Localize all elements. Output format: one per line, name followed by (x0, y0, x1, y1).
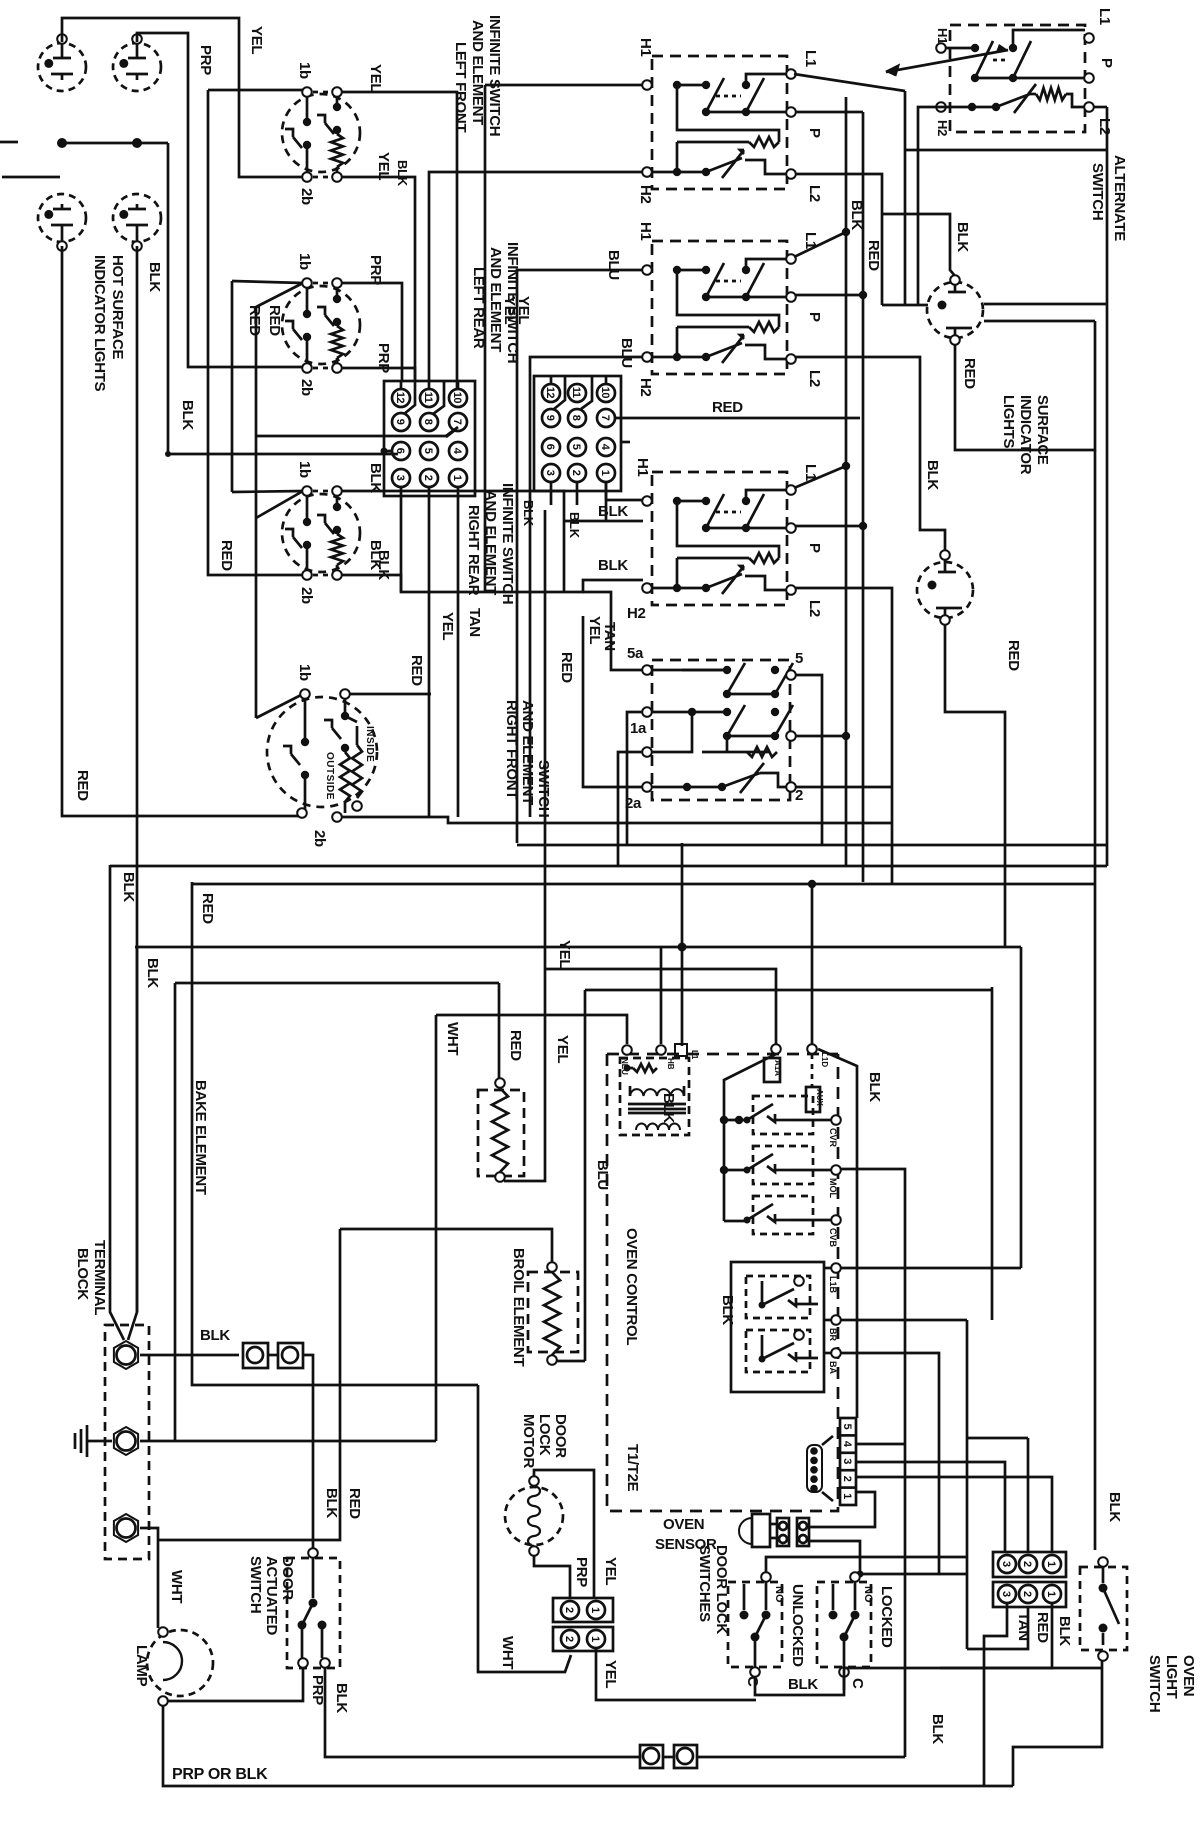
wire PRP from light2 to LR switch 2b (137, 33, 303, 367)
svg-text:BLK: BLK (367, 540, 384, 570)
svg-text:AND ELEMENT: AND ELEMENT (469, 20, 486, 125)
svg-text:BLK: BLK (1106, 1492, 1123, 1522)
wire PRP LR bottom into block (341, 368, 415, 381)
svg-text:1: 1 (451, 475, 463, 481)
svg-text:WHT: WHT (168, 1570, 185, 1603)
svg-text:WHT: WHT (499, 1636, 516, 1669)
svg-text:5: 5 (795, 650, 803, 667)
wire from left edge to LF 2b (2, 176, 60, 179)
wire left edge down x110 (110, 865, 124, 1340)
svg-text:C: C (849, 1678, 866, 1689)
svg-text:INFINITE SWITCH: INFINITE SWITCH (499, 483, 516, 604)
svg-text:RED: RED (712, 399, 743, 416)
wire bus y845 (517, 844, 1107, 847)
svg-text:YEL: YEL (586, 616, 603, 644)
svg-text:WHT: WHT (444, 1022, 461, 1055)
svg-text:BLK: BLK (866, 1072, 883, 1102)
alternate switch box (936, 25, 1094, 132)
svg-text:L2: L2 (806, 600, 823, 617)
wire L1 box3 diagonal (794, 462, 850, 488)
svg-text:1: 1 (1045, 1591, 1057, 1597)
wire H1 feed box1 (485, 85, 643, 592)
svg-text:RED: RED (1034, 1612, 1051, 1643)
svg-text:5: 5 (841, 1424, 853, 1430)
wire hex3 to lamp and right (140, 1528, 158, 1628)
svg-text:BLK: BLK (788, 1676, 818, 1693)
hot surface indicator light 2 (113, 34, 161, 91)
surface unit switch box 3 (642, 472, 796, 605)
label HOT SURFACE INDICATOR LIGHTS (91, 255, 126, 392)
svg-text:YEL: YEL (439, 612, 456, 640)
svg-text:TERMINAL: TERMINAL (91, 1240, 108, 1315)
wire squares to door actuated switch (268, 1355, 313, 1549)
svg-text:BLK: BLK (323, 1488, 340, 1518)
svg-text:RED: RED (865, 240, 882, 271)
svg-text:INDICATOR LIGHTS: INDICATOR LIGHTS (91, 255, 108, 392)
svg-text:BLK: BLK (146, 262, 163, 292)
infinite switch left rear (282, 278, 360, 373)
label L1 P L2 col2 (802, 232, 823, 387)
wire x137 to terminal block (128, 947, 137, 1340)
svg-text:H2: H2 (627, 605, 646, 622)
wire box3 H1 stub (605, 499, 647, 502)
relay 3 CVB (744, 1196, 841, 1234)
svg-text:HOT SURFACE: HOT SURFACE (109, 255, 126, 360)
wire TAN block2 pin3 (984, 1603, 1007, 1786)
wire PRP LR top to pin12 (341, 283, 402, 381)
wire door block pin2 feed (1027, 1438, 1030, 1552)
svg-text:BLK: BLK (598, 503, 628, 520)
surface indicator light A (927, 275, 983, 345)
svg-text:ACTUATED: ACTUATED (263, 1556, 280, 1635)
wire unlocked NO feed (766, 1557, 967, 1573)
svg-text:9: 9 (544, 415, 556, 421)
svg-text:1: 1 (589, 1607, 601, 1613)
wire bus to alt L2 right edge (905, 107, 1107, 866)
wire T1 from L1D area to 5-pin connector (818, 1049, 857, 1418)
svg-text:BLK: BLK (954, 222, 971, 252)
label DOOR LOCK SWITCHES (696, 1545, 730, 1634)
connector block left (pins 12-1) (381, 381, 476, 496)
svg-text:DOOR: DOOR (279, 1556, 296, 1600)
wire YEL block2 pin1 to lock switches (596, 1648, 756, 1700)
locked switch (817, 1572, 871, 1677)
wire L2 box3 to bus x892 (796, 588, 892, 884)
wire hex1 BLK to squares (140, 1354, 239, 1357)
wire YEL from light1 to LF switch 2b (62, 18, 303, 177)
svg-text:YEL: YEL (556, 940, 573, 968)
svg-text:OVEN: OVEN (663, 1516, 704, 1533)
svg-text:6: 6 (394, 448, 406, 454)
wire TAN to box4 5a (583, 592, 643, 670)
switch and element right front (double) (267, 689, 377, 822)
svg-text:YEL: YEL (367, 64, 384, 92)
svg-text:5a: 5a (627, 645, 644, 662)
svg-text:BLK: BLK (200, 1327, 230, 1344)
wire L1B to BLK bus (841, 947, 1021, 1268)
svg-text:BLK: BLK (395, 160, 410, 187)
wire YEL motor top to block1 pin1 (534, 1470, 594, 1597)
terminal L1D (807, 1044, 817, 1054)
svg-text:BLK: BLK (179, 400, 196, 430)
connector block right (pins 12-1) (534, 376, 630, 505)
svg-text:P: P (806, 312, 823, 322)
wire BLK RR bottom to box3 H2 (341, 575, 643, 592)
oven sensor probe (739, 1514, 809, 1547)
svg-text:SWITCH: SWITCH (247, 1556, 264, 1613)
svg-text:TAN: TAN (1015, 1612, 1032, 1641)
svg-text:PRP OR BLK: PRP OR BLK (172, 1766, 268, 1783)
label SWITCH AND ELEMENT RIGHT FRONT (503, 700, 552, 817)
svg-text:2: 2 (570, 470, 582, 476)
svg-text:3: 3 (1000, 1561, 1012, 1567)
svg-text:BLK: BLK (598, 557, 628, 574)
door lock motor (505, 1476, 563, 1556)
wire x175 down to hex2 line (174, 983, 177, 1441)
svg-text:11: 11 (422, 392, 434, 403)
svg-text:PRP: PRP (367, 255, 384, 285)
svg-text:10: 10 (599, 387, 611, 399)
wire BLK bus x846 (845, 97, 848, 865)
svg-text:RED: RED (507, 1030, 524, 1061)
wire junction lights 1-2 (57, 138, 168, 148)
wire lamp down to bottom line (163, 1706, 1013, 1786)
wire BLK light4 down (136, 246, 139, 1312)
wire bus diagonal LR 1b down to RF 1b (256, 283, 303, 718)
svg-text:3: 3 (544, 470, 556, 476)
svg-text:DOOR LOCK: DOOR LOCK (713, 1545, 730, 1634)
5-pin plug (807, 1436, 833, 1501)
wire bus y884 RED (192, 883, 1095, 886)
svg-text:BLOCK: BLOCK (74, 1248, 91, 1300)
wire bus y983 RED (175, 982, 499, 985)
svg-text:CVR: CVR (828, 1128, 838, 1148)
wire TAN pin1 down (457, 487, 460, 817)
wire RED bus to LF 1b and RR 2b (208, 90, 303, 575)
svg-text:H1: H1 (634, 458, 651, 477)
svg-text:H1: H1 (935, 28, 950, 44)
svg-text:2: 2 (1021, 1561, 1033, 1567)
svg-text:BROIL ELEMENT: BROIL ELEMENT (510, 1248, 527, 1366)
wire BA to locked NO (841, 1353, 939, 1574)
svg-text:RED: RED (961, 358, 978, 389)
unlocked switch (728, 1572, 782, 1677)
svg-text:L2: L2 (806, 370, 823, 387)
svg-text:1b: 1b (296, 253, 313, 270)
door actuated switch (287, 1548, 340, 1668)
svg-text:NO: NO (773, 1586, 785, 1603)
svg-text:YEL: YEL (554, 1035, 571, 1063)
dual surface switch box 4 (642, 660, 796, 800)
svg-text:TAN: TAN (466, 608, 483, 637)
wire L1 box1 diagonal to alt switch H1 bus (794, 74, 905, 305)
wire YEL bake loop (504, 969, 545, 1181)
wire BLK vertical mid (544, 510, 547, 969)
svg-text:1b: 1b (296, 461, 313, 478)
wire 1a feed (627, 712, 643, 845)
wire BLU down (585, 990, 992, 1361)
bake element (478, 1078, 524, 1182)
svg-text:BLU: BLU (605, 250, 622, 280)
svg-text:UNLOCKED: UNLOCKED (789, 1584, 806, 1667)
svg-text:BAKE ELEMENT: BAKE ELEMENT (192, 1080, 209, 1195)
wire BLK das to squares line (325, 1668, 640, 1757)
wire locked C to right (844, 1668, 1102, 1690)
svg-text:SWITCHES: SWITCHES (696, 1545, 713, 1622)
label TERMINAL BLOCK (74, 1240, 108, 1315)
svg-text:5: 5 (570, 444, 582, 450)
svg-text:RED: RED (1005, 640, 1022, 671)
wire box4 2 terminal (796, 786, 892, 789)
svg-text:OVEN CONTROL: OVEN CONTROL (623, 1228, 640, 1345)
hot surface indicator light 4 (113, 194, 161, 251)
svg-text:MOL: MOL (828, 1178, 838, 1198)
svg-text:RED: RED (266, 305, 283, 336)
wire HB stub (660, 947, 663, 1044)
svg-text:BLU: BLU (594, 1160, 611, 1190)
svg-text:1b: 1b (296, 62, 313, 79)
terminal block box (105, 1325, 149, 1559)
wire RED light B down (945, 625, 1005, 947)
wire L2 box1 to light1 (796, 174, 955, 305)
svg-text:4: 4 (841, 1441, 853, 1448)
label L1 P L2 col1 (802, 50, 823, 202)
svg-text:2a: 2a (625, 795, 642, 812)
terminal bolt 1 (114, 1341, 138, 1369)
wire YEL pin2 down (428, 487, 431, 817)
label INFINITE SWITCH AND ELEMENT LEFT REAR (470, 242, 521, 363)
wire bottom squares line right (663, 1756, 905, 1759)
wire YEL bus y968 (545, 969, 776, 1044)
svg-text:BLK: BLK (1056, 1616, 1073, 1646)
terminal BR (824, 1315, 841, 1325)
terminal L1B (824, 1263, 841, 1273)
svg-text:INFINITE SWITCH: INFINITE SWITCH (486, 15, 503, 136)
svg-text:3: 3 (841, 1458, 853, 1464)
wire H2 feed box1 (429, 172, 643, 389)
svg-text:T1/T2E: T1/T2E (624, 1444, 641, 1492)
svg-text:SWITCH: SWITCH (1089, 163, 1106, 220)
svg-text:BLK: BLK (719, 1295, 736, 1325)
wire pin2 to door block pin1 (856, 1477, 1052, 1552)
bottom square connector A (640, 1745, 663, 1768)
square connector B (278, 1343, 303, 1368)
svg-text:MOTOR: MOTOR (520, 1414, 537, 1469)
svg-text:2b: 2b (298, 379, 315, 396)
svg-text:AND ELEMENT: AND ELEMENT (519, 700, 536, 805)
door connector block 2 (993, 1582, 1066, 1607)
label L1 P L2 col3 (802, 464, 823, 617)
svg-text:11: 11 (570, 387, 582, 398)
wire pin1 to sensor (810, 1492, 875, 1527)
svg-text:LIGHTS: LIGHTS (1000, 395, 1017, 448)
svg-text:RED: RED (74, 770, 91, 801)
wire PRP motor bottom to block1 pin2 (534, 1556, 570, 1597)
svg-text:YEL: YEL (602, 1557, 619, 1585)
svg-text:C: C (744, 1676, 761, 1687)
svg-text:SWITCH: SWITCH (1146, 1655, 1163, 1712)
svg-text:9: 9 (394, 419, 406, 425)
svg-text:SURFACE: SURFACE (1034, 395, 1051, 465)
wire 2a feed (583, 616, 643, 787)
svg-text:BLK: BLK (660, 1093, 677, 1123)
surface indicator light B (917, 550, 973, 625)
svg-text:BR: BR (828, 1328, 838, 1341)
svg-text:10: 10 (451, 392, 463, 404)
surface unit switch box 1 (top) (642, 56, 796, 189)
svg-text:BA: BA (828, 1361, 838, 1374)
terminal bolt 2 (114, 1427, 138, 1455)
hot surface indicator light 3 (38, 194, 86, 251)
svg-text:H2: H2 (637, 378, 654, 397)
svg-text:BLK: BLK (367, 463, 384, 493)
svg-text:NO: NO (862, 1586, 874, 1603)
svg-text:PRP: PRP (197, 45, 214, 75)
svg-text:PRP: PRP (573, 1557, 590, 1587)
svg-text:BLK: BLK (929, 1714, 946, 1744)
oven light switch (1080, 1557, 1127, 1661)
svg-text:2: 2 (1021, 1591, 1033, 1597)
svg-text:P: P (806, 543, 823, 553)
broil element (340, 1229, 585, 1365)
wire WHT x436 (436, 1015, 627, 1441)
relay 2 MOL (744, 1146, 841, 1184)
wire pin1 stub (605, 482, 608, 521)
svg-text:OUTSIDE: OUTSIDE (324, 752, 335, 800)
svg-text:7: 7 (599, 415, 611, 421)
svg-text:A1A: A1A (773, 1060, 782, 1076)
motor terminal block 1 (553, 1598, 613, 1622)
oven control box (607, 1054, 838, 1511)
svg-text:2b: 2b (298, 188, 315, 205)
svg-text:RED: RED (199, 893, 216, 924)
svg-text:H1: H1 (637, 38, 654, 57)
svg-text:INSIDE: INSIDE (364, 726, 375, 762)
svg-text:2: 2 (563, 1636, 575, 1642)
wire RED to bake element (498, 983, 501, 1078)
latch relay block (731, 1262, 824, 1392)
wire BR net to door block (841, 987, 1028, 1649)
square connector A (243, 1343, 268, 1368)
svg-text:BLK: BLK (521, 500, 536, 527)
wire bus y305 (882, 304, 1107, 305)
wire mid feed (618, 752, 643, 866)
label INFINITE SWITCH AND ELEMENT RIGHT REAR (465, 483, 516, 604)
svg-text:DOOR: DOOR (552, 1414, 569, 1458)
svg-text:PRP: PRP (309, 1675, 326, 1705)
wire YEL right block to bus (517, 270, 643, 843)
svg-text:1b: 1b (296, 664, 313, 681)
wire pin7 to RED bus (615, 417, 860, 420)
wire RED hex3 to broil (158, 1229, 340, 1540)
svg-text:INDICATOR: INDICATOR (1017, 395, 1034, 475)
5-pin connector T1/T2E (840, 1418, 856, 1505)
dashed link L1D to relays (811, 1054, 814, 1087)
svg-text:LEFT FRONT: LEFT FRONT (452, 42, 469, 132)
svg-text:RED: RED (246, 305, 263, 336)
wire lamp to PRP terminal (168, 1668, 303, 1701)
svg-text:RED: RED (346, 1488, 363, 1519)
wire BLK block2 pin1 (940, 1603, 1052, 1668)
svg-text:AUX: AUX (815, 1089, 824, 1107)
svg-text:LAMP: LAMP (133, 1645, 150, 1687)
wire BLK RR top to box3 H1 (341, 491, 643, 592)
svg-text:L2: L2 (1096, 118, 1113, 135)
label SURFACE INDICATOR LIGHTS (1000, 395, 1051, 475)
svg-text:BLK: BLK (924, 460, 941, 490)
svg-text:YEL: YEL (602, 1660, 619, 1688)
svg-text:L1: L1 (1096, 8, 1113, 25)
surface unit switch box 2 (642, 241, 796, 374)
wire L2 box2 to light2 (796, 357, 945, 555)
label OVEN LIGHT SWITCH (1146, 1655, 1197, 1712)
svg-text:CVB: CVB (828, 1228, 838, 1248)
svg-text:3: 3 (1000, 1591, 1012, 1597)
svg-text:RED: RED (558, 652, 575, 683)
ground symbol (75, 1425, 112, 1457)
oven control transformer (620, 1044, 689, 1135)
wire box4 5 terminal (796, 675, 822, 845)
svg-text:NEU: NEU (620, 1058, 629, 1075)
svg-text:L2: L2 (806, 185, 823, 202)
svg-text:2: 2 (563, 1607, 575, 1613)
svg-text:1a: 1a (630, 720, 647, 737)
svg-text:BLK: BLK (120, 872, 137, 902)
wire bus to LR 1b and RR 1b (232, 281, 303, 492)
terminal bolt 3 (114, 1514, 138, 1542)
relay 1 CVR (744, 1096, 841, 1134)
wire BA net to door block (939, 1574, 1028, 1649)
svg-text:BLK: BLK (567, 512, 582, 539)
svg-text:L1B: L1B (828, 1276, 838, 1294)
svg-text:2b: 2b (298, 587, 315, 604)
infinite switch left front (282, 87, 360, 182)
wire P box2 (796, 291, 867, 299)
wire RED bus x863 (796, 112, 863, 882)
svg-text:1: 1 (589, 1636, 601, 1642)
svg-text:RED: RED (218, 540, 235, 571)
label DOOR LOCK MOTOR (520, 1414, 569, 1469)
svg-text:2: 2 (422, 475, 434, 481)
label AUX boxed (806, 1087, 824, 1112)
svg-text:H1: H1 (637, 222, 654, 241)
svg-text:1: 1 (599, 470, 611, 476)
svg-text:ALTERNATE: ALTERNATE (1111, 155, 1128, 241)
wire YEL LF bottom to pin11 (341, 177, 415, 381)
door connector block 1 (993, 1552, 1066, 1577)
label ALTERNATE SWITCH (1089, 155, 1128, 241)
svg-text:8: 8 (570, 415, 582, 421)
wire x192 down then right (lower bus) (192, 882, 478, 1385)
wire x682 down to oven control L1 (678, 843, 687, 1046)
wire left edge tick (0, 141, 18, 144)
wire to connector pin7 (256, 427, 458, 436)
wire bus y321 to oven light feed (984, 320, 1095, 323)
terminal A1A boxed (764, 1044, 782, 1082)
wire sensor lower (809, 1541, 864, 1578)
wire bus y947 BLK (135, 946, 1021, 949)
wire RF top terminal right (349, 693, 431, 696)
svg-text:L1: L1 (690, 1050, 699, 1060)
svg-text:RIGHT REAR: RIGHT REAR (465, 505, 482, 596)
svg-text:YEL: YEL (248, 26, 265, 54)
svg-text:1: 1 (1045, 1561, 1057, 1567)
svg-text:BLK: BLK (333, 1683, 350, 1713)
wire bottom right steps (1013, 1661, 1102, 1786)
terminal BA (824, 1348, 841, 1358)
annotation arrow (886, 44, 1008, 76)
relay bank supply (720, 1054, 776, 1221)
